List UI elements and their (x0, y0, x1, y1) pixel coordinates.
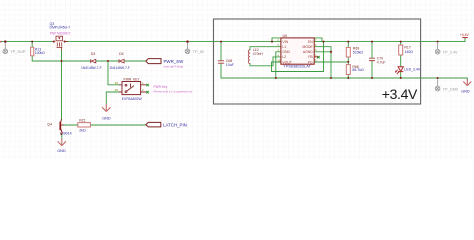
svg-text:GND: GND (57, 149, 66, 153)
svg-text:470nH: 470nH (253, 52, 264, 56)
svg-text:1N4148W-7-F: 1N4148W-7-F (109, 66, 130, 70)
svg-text:L1: L1 (282, 45, 286, 49)
svg-text:S9014: S9014 (61, 132, 71, 136)
svg-text:AGND: AGND (303, 50, 313, 54)
svg-text:100kΩ: 100kΩ (35, 51, 45, 55)
svg-text:U9: U9 (283, 34, 288, 38)
svg-text:TP_GND: TP_GND (443, 87, 459, 91)
svg-text:Internal Pullup: Internal Pullup (164, 65, 184, 69)
svg-text:GND: GND (282, 50, 290, 54)
svg-text:C68: C68 (226, 59, 232, 63)
svg-text:523kΩ: 523kΩ (353, 51, 364, 55)
svg-text:+3.4V: +3.4V (460, 33, 470, 37)
svg-text:L2: L2 (282, 55, 286, 59)
svg-text:Q4: Q4 (47, 122, 52, 126)
svg-text:EVPAA602W: EVPAA602W (122, 97, 143, 101)
svg-text:PWR_KEY: PWR_KEY (124, 77, 141, 81)
svg-text:EN: EN (308, 40, 313, 44)
svg-text:D4: D4 (119, 52, 124, 56)
svg-text:PNP MOSFET: PNP MOSFET (50, 31, 71, 35)
svg-text:PWR Key: PWR Key (154, 85, 168, 89)
svg-text:4.7uF: 4.7uF (377, 61, 386, 65)
svg-text:TP_IN: TP_IN (193, 49, 204, 54)
svg-text:+3.4V: +3.4V (382, 86, 418, 102)
svg-text:2S: 2S (115, 88, 119, 92)
svg-text:140Ω: 140Ω (404, 50, 413, 54)
svg-text:LATCH_PIN: LATCH_PIN (163, 123, 187, 128)
svg-text:TP_3.4V: TP_3.4V (443, 51, 458, 55)
svg-text:VIN: VIN (282, 40, 288, 44)
svg-text:GND: GND (461, 89, 470, 93)
svg-text:D3: D3 (91, 52, 96, 56)
svg-text:LED_3.4V: LED_3.4V (404, 68, 421, 72)
svg-text:FB: FB (308, 55, 313, 59)
svg-text:DMP1045U-7: DMP1045U-7 (50, 25, 71, 29)
svg-text:TP_SUP: TP_SUP (10, 49, 26, 54)
svg-text:1N4148W-7-F: 1N4148W-7-F (81, 66, 102, 70)
svg-text:(Press until v1. is powered on: (Press until v1. is powered on) (154, 90, 193, 94)
svg-text:10uF: 10uF (226, 63, 234, 67)
svg-text:2kΩ: 2kΩ (79, 128, 86, 132)
svg-text:R21: R21 (79, 119, 86, 123)
svg-text:GND: GND (102, 117, 111, 121)
svg-text:1S: 1S (115, 81, 119, 85)
svg-text:TPS63802DLAT: TPS63802DLAT (284, 65, 312, 69)
svg-text:88.7kΩ: 88.7kΩ (352, 68, 364, 72)
svg-text:PWR_SW: PWR_SW (164, 59, 185, 64)
svg-text:MODE: MODE (303, 45, 314, 49)
